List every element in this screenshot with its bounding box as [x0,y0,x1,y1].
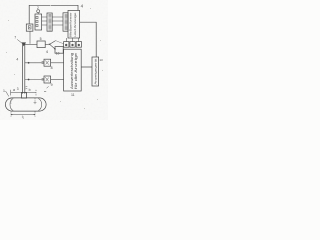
svg-text:5: 5 [40,37,42,41]
svg-text:1: 1 [3,89,5,93]
svg-text:b: b [29,88,31,92]
svg-text:10: 10 [56,51,60,55]
svg-text:4: 4 [16,58,18,62]
svg-text:Auswerteschaltung: Auswerteschaltung [70,53,74,89]
svg-text:für die Anzeige: für die Anzeige [74,53,78,89]
svg-text:6: 6 [46,50,48,54]
svg-text:7: 7 [14,36,16,40]
svg-text:Anzeigegerät: Anzeigegerät [93,58,97,84]
svg-text:und Anzeige: und Anzeige [73,12,77,36]
svg-text:3: 3 [17,87,19,91]
svg-text:2: 2 [37,6,39,10]
svg-text:9: 9 [51,83,53,87]
svg-text:8: 8 [51,66,53,70]
svg-text:11: 11 [71,93,75,97]
svg-text:a: a [13,88,15,92]
svg-text:13: 13 [99,58,103,62]
